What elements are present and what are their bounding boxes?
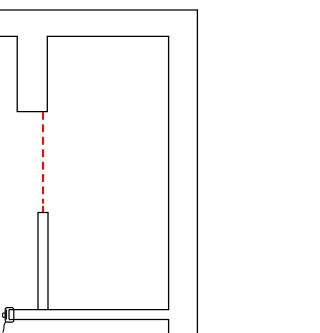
- wire: bottom wall upper line: [9, 309, 169, 311]
- wire: inner top wall line left segment: [0, 35, 18, 37]
- wall stub under dashed line: [37, 213, 48, 310]
- wire: outer top wall line: [0, 9, 198, 11]
- wire: bottom wall lower line with right drop: [9, 320, 169, 333]
- fixture: end cap verticals: [6, 310, 9, 320]
- node: wall recess (shaft) outline: [17, 36, 48, 112]
- wire: interior right vertical wall: [168, 36, 170, 309]
- fixture: rounded body outline: [5, 308, 14, 323]
- wire: inner top wall line right segment: [47, 35, 169, 37]
- fixture: leader squiggle: [3, 322, 6, 333]
- wire: outer right wall line: [196, 9, 198, 333]
- red dashed opening line: [42, 112, 44, 213]
- fixture: left nub: [3, 313, 6, 317]
